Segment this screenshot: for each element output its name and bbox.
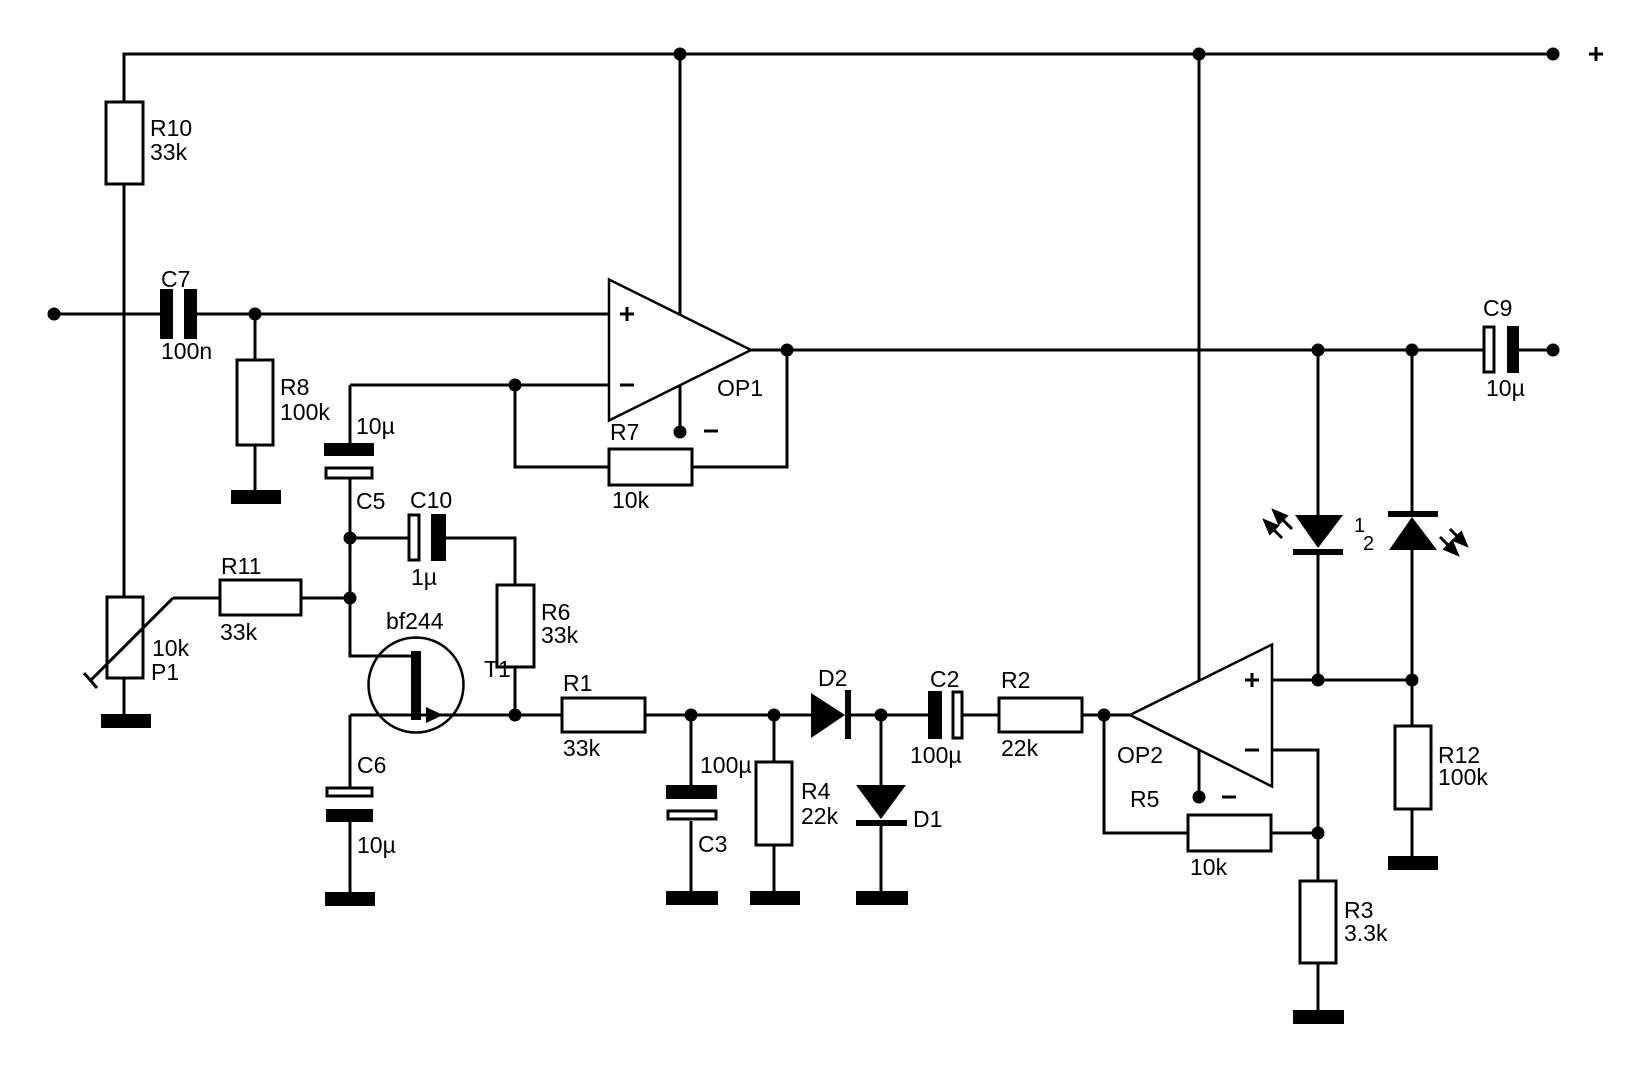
wire C10 left link [350, 537, 408, 540]
svg-text:1µ: 1µ [411, 564, 437, 590]
svg-text:P1: P1 [151, 659, 179, 685]
wire C3 top [690, 715, 693, 785]
svg-text:100µ: 100µ [700, 752, 752, 778]
wire OP2 negative supply stub [1198, 750, 1201, 797]
transistor Q1 channel bar [411, 651, 421, 720]
capacitor C2 plate right [953, 692, 962, 738]
capacitor C6 plate bottom [326, 809, 373, 822]
junction LED2 output node [1406, 344, 1419, 357]
wire D2 to D1 node [851, 714, 881, 717]
svg-text:C2: C2 [930, 666, 959, 692]
capacitor C5 plate bottom [326, 468, 372, 478]
svg-text:C3: C3 [698, 831, 727, 857]
LED 1 arrows [1265, 511, 1292, 538]
resistor R6 [497, 585, 534, 667]
terminal output [1547, 344, 1560, 357]
svg-text:R7: R7 [610, 419, 639, 445]
svg-text:33k: 33k [563, 735, 601, 761]
svg-text:33k: 33k [220, 619, 258, 645]
wire D1 node to C2 [881, 714, 928, 717]
svg-text:OP2: OP2 [1117, 742, 1163, 768]
wire LED1 to plus node [1317, 555, 1320, 680]
wire R8 to ground [254, 445, 257, 491]
wire OP2 minus input [1272, 750, 1318, 833]
svg-text:OP1: OP1 [717, 375, 763, 401]
svg-text:3.3k: 3.3k [1344, 920, 1388, 946]
junction R4 node [768, 709, 781, 722]
svg-text:R2: R2 [1001, 667, 1030, 693]
junction top rail OP2 supply [1193, 48, 1206, 61]
wire R4 bottom to ground [773, 845, 776, 892]
wire R7 right to output [692, 350, 787, 467]
svg-text:10µ: 10µ [1486, 375, 1525, 401]
LED 1 [1293, 515, 1343, 555]
LED 2 arrows [1440, 529, 1466, 554]
svg-text:C5: C5 [356, 488, 385, 514]
svg-text:R1: R1 [563, 670, 592, 696]
wire R6 bottom to source node [514, 667, 517, 715]
wire output to LED2 [1411, 350, 1414, 511]
resistor R11 [220, 580, 301, 615]
resistor R2 [999, 698, 1082, 732]
op-amp OP2 plus mark [1245, 673, 1259, 687]
junction R11 node [344, 592, 357, 605]
svg-text:100µ: 100µ [910, 742, 962, 768]
resistor R3 [1300, 881, 1336, 963]
wire LED2 to plus node [1411, 550, 1414, 680]
transistor Q1 circle [369, 638, 464, 733]
wire OP2 plus input [1272, 679, 1412, 682]
wire C6 bottom to ground [349, 822, 352, 892]
LED 2 [1388, 511, 1438, 550]
svg-text:100k: 100k [280, 399, 330, 425]
wire C10 node to gate corner [350, 598, 411, 656]
wire node A to R8 [254, 314, 257, 360]
junction OP1 output node [781, 344, 794, 357]
svg-text:R5: R5 [1130, 786, 1159, 812]
junction LED1 plus node [1312, 674, 1325, 687]
capacitor C9 plate right [1507, 326, 1519, 373]
resistor R8 [237, 360, 273, 445]
wire D1 top [880, 715, 883, 785]
svg-text:2: 2 [1363, 533, 1374, 555]
svg-text:C9: C9 [1483, 295, 1512, 321]
svg-text:R10: R10 [150, 115, 192, 141]
svg-text:C7: C7 [161, 266, 190, 292]
wire C7 to OP1 plus input [197, 313, 609, 316]
op-amp OP1 minus mark [620, 384, 634, 387]
terminal supply plus [1547, 48, 1560, 61]
resistor R1 [562, 698, 645, 732]
ground R12 [1388, 856, 1438, 870]
wire C3 bottom to ground [690, 821, 693, 892]
wire plus node to R12 [1411, 680, 1414, 726]
svg-text:22k: 22k [1001, 735, 1039, 761]
wire top rail [124, 54, 1553, 102]
wire C2 to R2 [963, 714, 999, 717]
capacitor C3 plate top [666, 785, 717, 799]
svg-text:33k: 33k [541, 622, 579, 648]
wire D1 bottom to ground [880, 826, 883, 892]
wire R4 node to D2 [774, 714, 811, 717]
wire C5 bottom to C10 node [349, 479, 352, 598]
wire C3 node to R4 node [691, 714, 774, 717]
resistor R4 [756, 762, 792, 845]
op-amp OP2 minus mark [1245, 749, 1259, 752]
op-amp OP1 plus mark [620, 307, 634, 321]
svg-text:100k: 100k [1438, 764, 1488, 790]
ground R3 [1293, 1010, 1344, 1024]
ground C6 [325, 892, 375, 906]
wire supply drop to OP1 [679, 54, 682, 314]
capacitor C5 plate top [324, 443, 374, 456]
terminal input [48, 308, 61, 321]
svg-text:33k: 33k [150, 139, 188, 165]
resistor R7 [609, 449, 692, 485]
junction OP2 negative supply [1193, 791, 1206, 804]
wire R2 to OP2 tip [1082, 714, 1130, 717]
svg-text:10µ: 10µ [356, 413, 395, 439]
svg-text:10k: 10k [612, 487, 650, 513]
capacitor C10 plate right [431, 514, 446, 561]
svg-text:22k: 22k [801, 803, 839, 829]
svg-text:R11: R11 [221, 553, 262, 579]
junction D1 node [875, 709, 888, 722]
ground R8 [231, 490, 281, 504]
svg-text:100n: 100n [161, 338, 212, 364]
op-amp OP1 negative supply minus label [704, 430, 718, 433]
wire output to LED1 [1317, 350, 1320, 515]
junction OP2 input node [1098, 709, 1111, 722]
wire OP1 output rail [751, 349, 1483, 352]
op-amp OP1 [609, 280, 751, 421]
junction C10 node [344, 532, 357, 545]
wire OP1 minus input [350, 384, 609, 387]
diode D2 [811, 690, 851, 739]
resistor R10 [106, 102, 143, 184]
junction top rail OP1 supply [674, 48, 687, 61]
wire OP2 tip to R5 left [1104, 715, 1188, 833]
wire minus node to R7 left [515, 385, 609, 467]
junction LED1 output node [1312, 344, 1325, 357]
junction OP1 negative supply [674, 426, 687, 439]
svg-text:C6: C6 [357, 752, 386, 778]
diode D1 [856, 785, 907, 826]
junction C3 node [685, 709, 698, 722]
svg-text:R4: R4 [801, 778, 831, 804]
resistor R5 [1188, 815, 1271, 851]
op-amp OP2 [1130, 645, 1272, 787]
junction R12 plus node [1406, 674, 1419, 687]
wire OP1 negative supply stub [679, 385, 682, 432]
junction R5 node [1312, 827, 1325, 840]
ground P1 [101, 714, 151, 728]
wire R3 bottom to ground [1317, 963, 1320, 1010]
wire R11 left link [173, 597, 220, 600]
resistor R12 [1395, 726, 1431, 809]
svg-text:T1: T1 [484, 656, 511, 682]
wire R12 bottom to ground [1411, 809, 1414, 857]
junction minus input node [509, 379, 522, 392]
ground R4 [750, 891, 800, 905]
wire R4 top [773, 715, 776, 762]
junction source node [509, 709, 522, 722]
wire P1 bottom to ground [123, 678, 126, 715]
ground D1 [856, 891, 908, 905]
ground C3 [666, 891, 718, 905]
op-amp OP2 negative supply minus label [1222, 796, 1236, 799]
capacitor C2 plate left [928, 691, 942, 739]
capacitor C7 [160, 289, 173, 339]
potentiometer P1 [107, 597, 143, 678]
svg-text:10k: 10k [152, 635, 190, 661]
capacitor C9 plate left [1484, 327, 1494, 372]
svg-text:C10: C10 [410, 487, 452, 513]
wire C6 top [349, 715, 352, 787]
svg-text:D2: D2 [818, 665, 847, 691]
wire R1 right to C3 node [645, 714, 691, 717]
svg-text:bf244: bf244 [386, 608, 444, 634]
svg-text:10µ: 10µ [357, 832, 396, 858]
wire supply drop to OP2 [1198, 54, 1201, 680]
capacitor C10 plate left [409, 515, 419, 560]
wire R5 node to R3 [1317, 833, 1320, 881]
capacitor C6 plate top [327, 788, 372, 796]
wire R10 to P1 [123, 184, 126, 597]
wire R5 right link [1271, 832, 1318, 835]
capacitor C3 plate bottom [668, 811, 716, 819]
wire C9 to out terminal [1519, 349, 1553, 352]
wire input to C7 [54, 313, 160, 316]
svg-text:R8: R8 [280, 374, 309, 400]
svg-text:D1: D1 [913, 806, 942, 832]
svg-text:10k: 10k [1190, 854, 1228, 880]
junction node after C7 [249, 308, 262, 321]
wire C5 top [349, 385, 352, 443]
wire R11 right link [301, 597, 350, 600]
label supply plus [1589, 47, 1603, 61]
transistor Q1 source arrow [426, 707, 443, 723]
wire source line [350, 714, 562, 717]
potentiometer P1 wiper arrow [84, 598, 173, 688]
wire C10 right to R6 top [446, 538, 515, 585]
